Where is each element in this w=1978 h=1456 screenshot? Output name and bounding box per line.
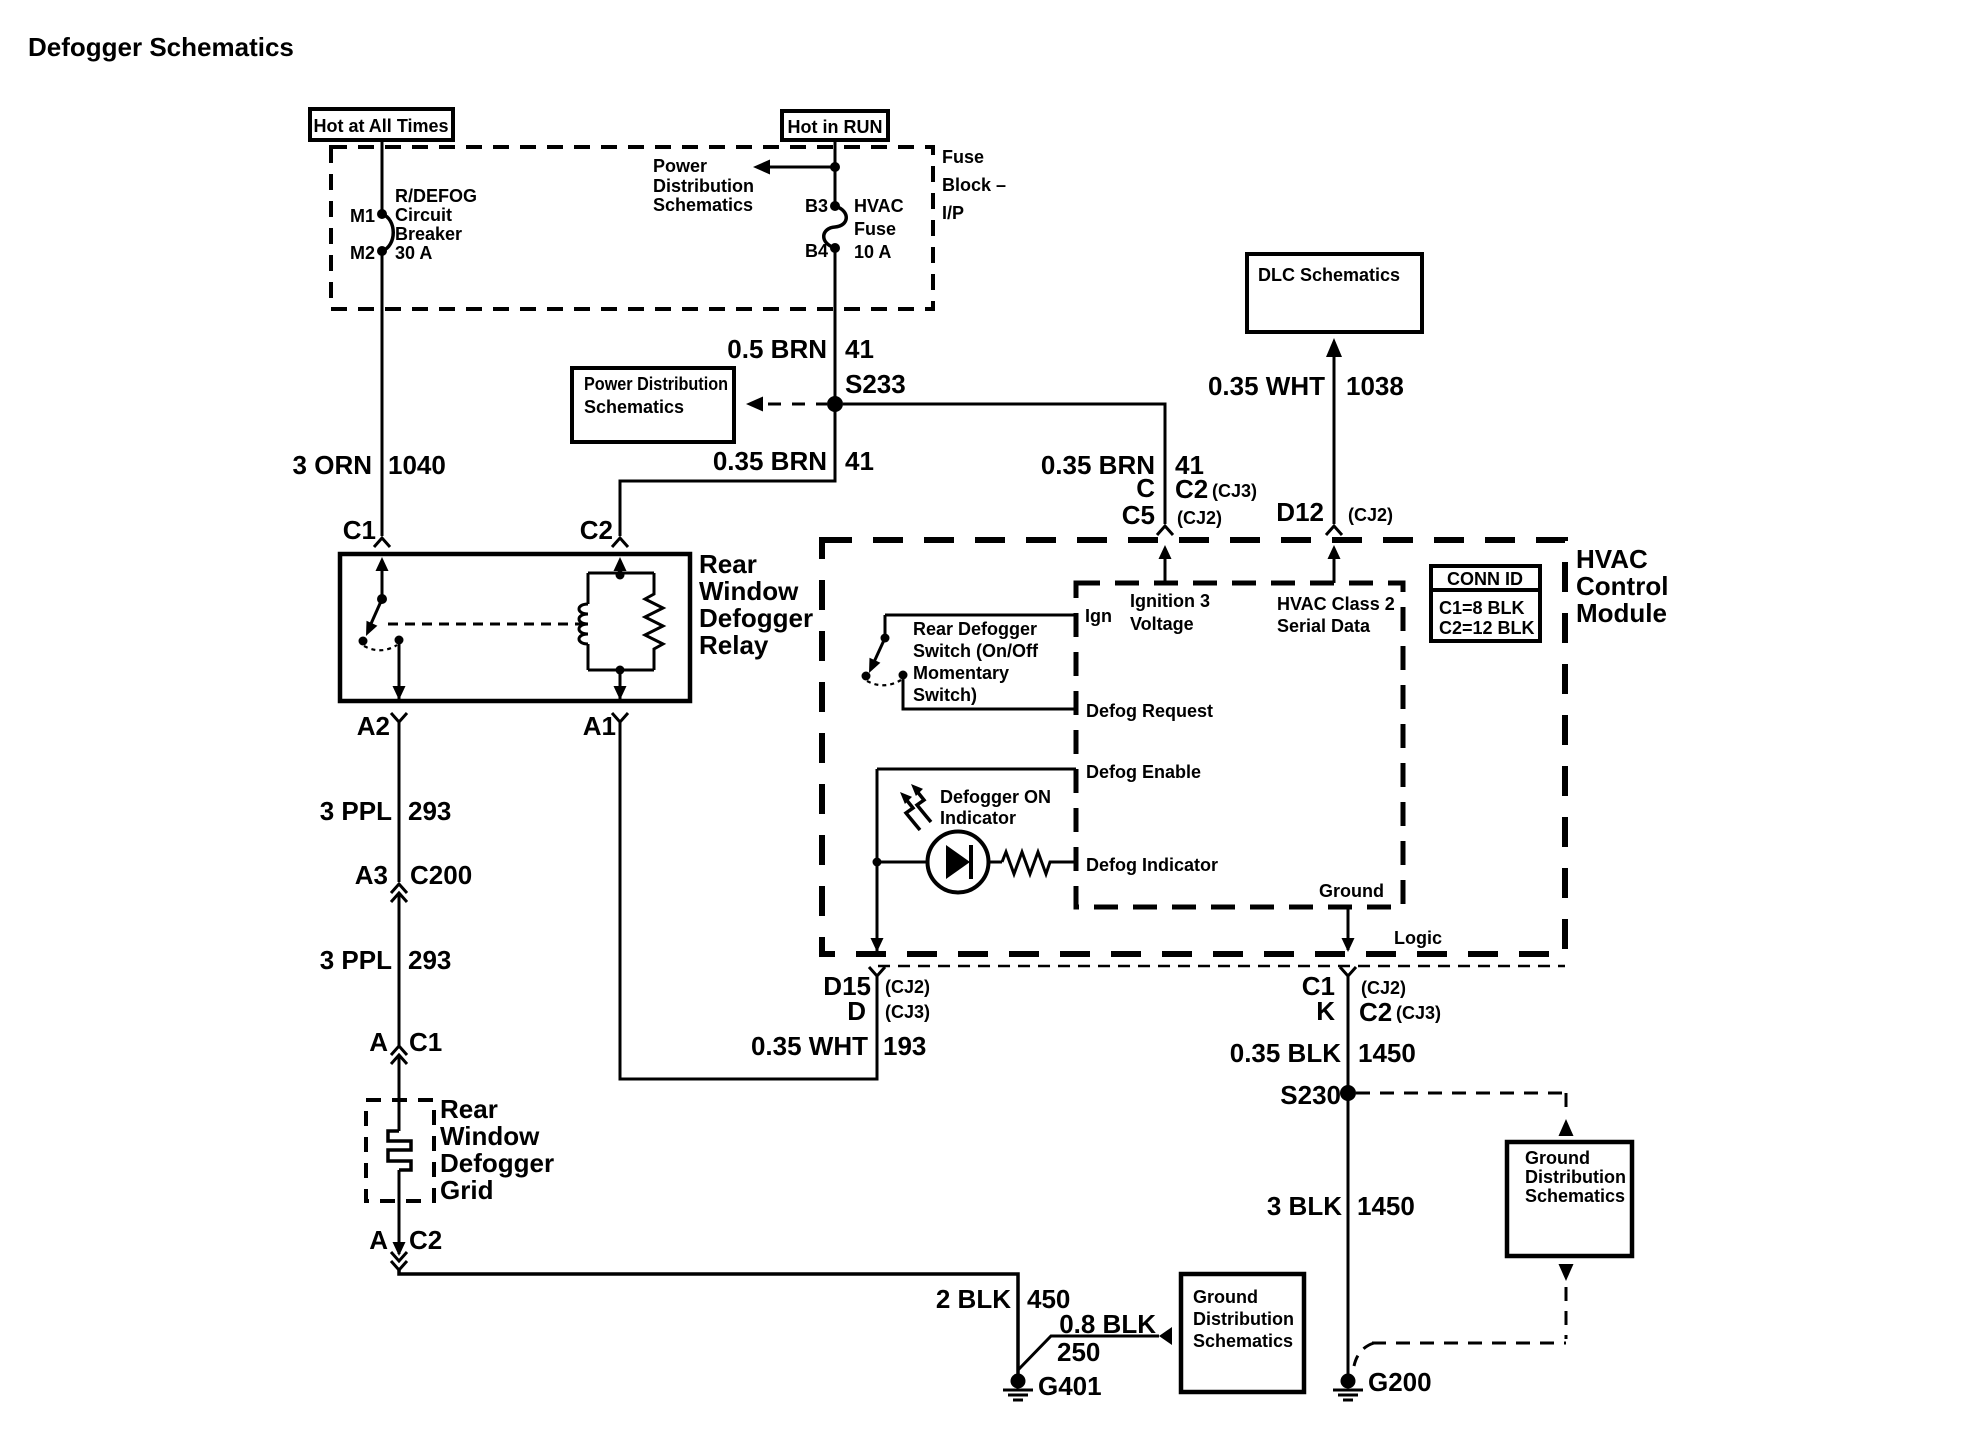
svg-text:Schematics: Schematics [653,195,753,215]
label: Fuse Block - I/P [942,147,1006,223]
svg-text:293: 293 [408,945,451,975]
svg-text:C5: C5 [1122,500,1155,530]
svg-text:C2: C2 [1175,474,1208,504]
wire: Defog Enable pin to indicator branch [877,768,1076,771]
svg-text:3 BLK: 3 BLK [1267,1191,1342,1221]
value label: 0.8 BLK [1059,1309,1156,1339]
svg-text:10 A: 10 A [854,242,891,262]
svg-text:Schematics: Schematics [1193,1331,1293,1351]
svg-text:Defogger: Defogger [440,1148,554,1178]
resistor in defog indicator line [1002,852,1076,874]
label: Defog Enable [1086,762,1201,782]
svg-text:Defogger ON: Defogger ON [940,787,1051,807]
svg-text:0.35 WHT: 0.35 WHT [1208,371,1325,401]
wire: relay coil to A1 (arrow down) [614,670,627,700]
relay switch contacts and dashed travel arc [359,636,404,651]
circuit breaker R/DEFOG 30 A (pins M1, M2) [377,209,393,256]
dashed box: rear window defogger grid [366,1100,434,1201]
svg-text:3 PPL: 3 PPL [320,945,392,975]
svg-text:1040: 1040 [388,450,446,480]
label: G200 [1368,1367,1432,1397]
svg-text:B3: B3 [805,196,828,216]
relay coil top rail with node dot [588,571,654,580]
pin label A3 / C200 [355,860,472,890]
svg-text:A2: A2 [357,711,390,741]
reference box: Ground Distribution Schematics (right) [1507,1142,1632,1256]
svg-text:A: A [369,1225,388,1255]
connector chevron at relay C1 [374,538,390,547]
svg-text:C2: C2 [409,1225,442,1255]
module logic inner dashed box [1076,583,1403,907]
wire: 3 PPL 293 from C200 to connector C1 of grid [398,893,401,1046]
pin label C / C2 (CJ3) [1136,473,1257,504]
svg-text:293: 293 [408,796,451,826]
svg-text:C1: C1 [343,515,376,545]
wire: 0.35 BRN 41 from S233 down and left to relay C2 [620,404,835,536]
ground G200 [1333,1374,1363,1401]
label: Defogger ON Indicator [940,787,1051,828]
relay switch common from C1 (arrow up, pivot dot) [376,557,389,604]
svg-text:HVAC: HVAC [854,196,904,216]
svg-text:S230: S230 [1280,1080,1341,1110]
defogger grid element (meander) [388,1131,411,1170]
title: Defogger Schematics [28,32,294,62]
label: Rear Window Defogger Grid [440,1094,554,1205]
value label: 0.5 BRN 41 [727,334,874,364]
indicator LED lamp (circle + diode) [881,832,1002,893]
pin label A2 [357,711,390,741]
reference box: DLC Schematics [1247,254,1422,332]
svg-text:41: 41 [845,446,874,476]
wire into rear window defogger grid [398,1055,401,1131]
wire: Hot in RUN down to HVAC fuse B3 [834,140,837,204]
label: HVAC Class 2 Serial Data [1277,594,1395,636]
pin label M2 [350,243,375,263]
junction node on fuse feed wire [830,162,840,172]
svg-text:CONN ID: CONN ID [1447,569,1523,589]
svg-text:I/P: I/P [942,203,964,223]
svg-text:(CJ3): (CJ3) [1212,481,1257,501]
svg-text:0.35 BLK: 0.35 BLK [1230,1038,1341,1068]
rear defogger switch contacts and dashed travel arc [862,671,908,686]
wire: 3 BLK 1450 from S230 to G200 [1347,1093,1350,1374]
svg-text:0.8 BLK: 0.8 BLK [1059,1309,1156,1339]
power label box: Hot at All Times [310,109,453,140]
pin label C5 / (CJ2) [1122,500,1222,530]
svg-text:Distribution: Distribution [1525,1167,1626,1187]
relay suppression resistor (right branch of parallel pair) [645,573,663,670]
pin label K / C2 (CJ3) [1316,996,1441,1027]
label: G401 [1038,1371,1102,1401]
pin label D / (CJ3) [847,996,930,1026]
pin label A / C2 (grid bottom) [369,1225,442,1255]
value label: 3 PPL 293 (lower) [320,945,452,975]
svg-text:B4: B4 [805,241,828,261]
svg-text:Schematics: Schematics [1525,1186,1625,1206]
node dot on defog enable/indicator branch [873,769,882,953]
svg-text:(CJ2): (CJ2) [885,977,930,997]
relay switch blade with arrowhead [366,599,382,636]
node S233 [827,396,843,412]
svg-text:Momentary: Momentary [913,663,1009,683]
wire: logic Ground pin down to module pin C1 (arrow down) [1342,907,1355,952]
pin label B3 [805,196,828,216]
inline connector grid C2 (double chevron down) [391,1252,407,1270]
inline connector C200 (double chevron) [391,884,407,902]
svg-text:G401: G401 [1038,1371,1102,1401]
svg-text:HVAC: HVAC [1576,544,1648,574]
wire: 0.35 BRN 41 from S233 right and down to HVAC module C5 [843,404,1165,524]
fuse F: HVAC Fuse 10 A (pins B3, B4) [824,201,847,253]
pin label C1 (relay) [343,515,376,545]
wire: 3 ORN 1040 from circuit breaker M2 to relay C1 [381,251,384,536]
connector chevron at relay A1 [612,713,628,722]
svg-text:Ground: Ground [1525,1148,1590,1168]
label: Ign (logic box pin) [1085,606,1112,626]
connector chevron at module C1/K [1340,967,1356,976]
ground G401 [1003,1374,1033,1401]
svg-text:M2: M2 [350,243,375,263]
wire: grid element to connector C2 (arrow down) [393,1170,406,1256]
connector chevron at HVAC D12 [1326,526,1342,535]
wire: C5 pin into logic box Ignition 3 Voltage (arrow up) [1159,545,1172,583]
label: HVAC Control Module [1576,544,1668,628]
svg-text:Defog Enable: Defog Enable [1086,762,1201,782]
label: Defog Request [1086,701,1213,721]
value label: 0.35 WHT 193 [751,1031,926,1061]
svg-text:Module: Module [1576,598,1667,628]
relay coil bottom rail with node dot [588,666,654,675]
pin label D15 / (CJ2) [823,971,930,1001]
svg-text:C1=8 BLK: C1=8 BLK [1439,598,1525,618]
label: Logic [1394,928,1442,948]
svg-text:Defogger Schematics: Defogger Schematics [28,32,294,62]
wire: rear defogger switch to Ign pin [885,614,1076,617]
dashed link: relay switch to relay coil [388,623,586,626]
svg-text:Defogger: Defogger [699,603,813,633]
svg-text:Rear Defogger: Rear Defogger [913,619,1037,639]
wire: 2 BLK 450 from grid C2 to G401 riser [399,1270,1018,1374]
svg-text:Control: Control [1576,571,1668,601]
svg-text:Power Distribution: Power Distribution [584,374,728,394]
svg-text:1450: 1450 [1358,1038,1416,1068]
svg-text:K: K [1316,996,1335,1026]
svg-text:C200: C200 [410,860,472,890]
svg-text:Indicator: Indicator [940,808,1016,828]
node S230 [1340,1085,1356,1101]
svg-text:Power: Power [653,156,707,176]
svg-text:Logic: Logic [1394,928,1442,948]
svg-text:Fuse: Fuse [942,147,984,167]
svg-text:Grid: Grid [440,1175,493,1205]
value label: 3 ORN 1040 [293,450,446,480]
svg-text:C: C [1136,473,1155,503]
svg-text:Rear: Rear [699,549,757,579]
pin label M1 [350,206,375,226]
svg-text:Hot at All Times: Hot at All Times [313,116,448,136]
svg-text:Window: Window [699,576,799,606]
rear defogger switch blade with arrowhead [869,638,885,673]
svg-text:D: D [847,996,866,1026]
pin label C1 / (CJ2) [1302,971,1406,1001]
svg-text:Defog Indicator: Defog Indicator [1086,855,1218,875]
svg-text:S233: S233 [845,369,906,399]
pin label C2 (relay) [580,515,613,545]
label: Ground (logic box pin) [1319,881,1384,901]
wire: relay C2 into coil (arrow up) [614,557,627,573]
relay K: Rear Window Defogger Relay box [340,554,690,701]
svg-text:G200: G200 [1368,1367,1432,1397]
svg-text:A1: A1 [583,711,616,741]
svg-text:(CJ2): (CJ2) [1361,978,1406,998]
svg-text:Ground: Ground [1193,1287,1258,1307]
svg-text:M1: M1 [350,206,375,226]
svg-text:Switch (On/Off: Switch (On/Off [913,641,1039,661]
svg-text:Hot in RUN: Hot in RUN [788,117,883,137]
label: S233 [845,369,906,399]
svg-text:C2=12 BLK: C2=12 BLK [1439,618,1535,638]
value label: 2 BLK 450 [936,1284,1071,1314]
wire: D12 pin into logic box HVAC Class 2 Serial Data (arrow up) [1328,545,1341,583]
svg-text:Ground: Ground [1319,881,1384,901]
reference box: Power Distribution Schematics [572,368,734,442]
svg-text:Ignition 3: Ignition 3 [1130,591,1210,611]
svg-text:C2: C2 [1359,997,1392,1027]
value label: 3 PPL 293 (upper) [320,796,452,826]
indicator light rays icon [900,784,931,830]
wire: 3 PPL 293 from relay A2 to connector C200 [398,722,401,882]
connector chevron at relay A2 [391,713,407,722]
svg-text:3 ORN: 3 ORN [293,450,372,480]
wire: 0.35 BLK 1450 from module C1 to S230 [1347,976,1350,1093]
value label: 0.35 WHT 1038 [1208,371,1404,401]
wire: relay switch to A2 (arrow down) [393,640,406,700]
wire: 0.35 WHT 1038 from HVAC D12 up to DLC Schematics [1326,338,1342,524]
svg-text:A: A [369,1027,388,1057]
svg-text:Breaker: Breaker [395,224,462,244]
label: Power Distribution Schematics (top) [653,156,754,215]
svg-text:HVAC Class 2: HVAC Class 2 [1277,594,1395,614]
wire: switch to Defog Request pin [903,675,1076,709]
fuse block I/P dashed box [331,147,933,309]
svg-text:1450: 1450 [1357,1191,1415,1221]
rear defogger switch pivot [881,615,890,643]
svg-text:Voltage: Voltage [1130,614,1194,634]
svg-text:Window: Window [440,1121,540,1151]
value label: HVAC Fuse 10 A [854,196,904,262]
svg-text:1038: 1038 [1346,371,1404,401]
svg-text:R/DEFOG: R/DEFOG [395,186,477,206]
svg-text:Block –: Block – [942,175,1006,195]
pin label A1 [583,711,616,741]
wire: 0.35 WHT 193 from D15 down, left and up to relay A1 [620,722,877,1079]
svg-text:Relay: Relay [699,630,769,660]
svg-text:Fuse: Fuse [854,219,896,239]
svg-text:Defog Request: Defog Request [1086,701,1213,721]
label: S230 [1280,1080,1341,1110]
inline connector grid C1 (double chevron) [391,1046,407,1064]
svg-text:(CJ2): (CJ2) [1177,508,1222,528]
svg-text:30 A: 30 A [395,243,432,263]
wire: 0.5 BRN 41 from fuse B4 to S233 [834,248,837,404]
dashed wire: S233 to Power Distribution Schematics box [746,397,827,412]
svg-text:Ign: Ign [1085,606,1112,626]
svg-text:DLC Schematics: DLC Schematics [1258,265,1400,285]
svg-text:0.35 WHT: 0.35 WHT [751,1031,868,1061]
svg-text:(CJ3): (CJ3) [885,1002,930,1022]
svg-text:41: 41 [845,334,874,364]
svg-text:193: 193 [883,1031,926,1061]
relay coil (left branch of parallel pair) [579,573,588,670]
svg-text:0.35 BRN: 0.35 BRN [713,446,827,476]
wire: 0.8 BLK 250 branch to Ground Distribution Schematics [1018,1327,1172,1370]
pin label D12 / (CJ2) [1276,497,1393,527]
reference box: Ground Distribution Schematics (left) [1181,1274,1304,1392]
dashed wire: S230 right to Ground Distribution Schematics (right) [1356,1093,1574,1136]
dashed wire: Ground Distribution Schematics (right) down to G200 [1354,1264,1574,1366]
label: Ignition 3 Voltage [1130,591,1210,634]
value label: 0.35 BRN 41 (right) [1041,450,1204,480]
value label: R/DEFOG Circuit Breaker 30 A [395,186,477,263]
pin label B4 [805,241,828,261]
label: Defog Indicator [1086,855,1218,875]
svg-text:Circuit: Circuit [395,205,452,225]
svg-text:A3: A3 [355,860,388,890]
power label box: Hot in RUN [782,111,888,140]
wire: defog enable branch down to module pin D15 (arrow down) [871,938,884,952]
connector chevron at relay C2 [612,538,628,547]
svg-text:Switch): Switch) [913,685,977,705]
svg-text:0.5 BRN: 0.5 BRN [727,334,827,364]
svg-text:3 PPL: 3 PPL [320,796,392,826]
pin label A / C1 (grid connector) [369,1027,442,1057]
svg-text:(CJ3): (CJ3) [1396,1003,1441,1023]
svg-text:D12: D12 [1276,497,1324,527]
connector ID table: CONN ID C1=8 BLK C2=12 BLK [1431,566,1540,641]
svg-text:Schematics: Schematics [584,397,684,417]
svg-text:C1: C1 [409,1027,442,1057]
svg-text:250: 250 [1057,1337,1100,1367]
svg-text:C2: C2 [580,515,613,545]
value label: 0.35 BRN 41 (left) [713,446,874,476]
value label: 250 [1057,1337,1100,1367]
label: Rear Defogger Switch (On/Off Momentary Switch) [913,619,1039,705]
wire: arrow branch to Power Distribution Schematics (top) [753,160,835,175]
wire: Hot at All Times to circuit breaker M1 [381,140,384,212]
svg-text:Serial Data: Serial Data [1277,616,1371,636]
connector chevron at module D15 [869,967,885,976]
label: Rear Window Defogger Relay [699,549,813,660]
svg-text:Rear: Rear [440,1094,498,1124]
value label: 3 BLK 1450 [1267,1191,1415,1221]
svg-text:Distribution: Distribution [1193,1309,1294,1329]
HVAC control module outer dashed box [822,540,1565,954]
svg-text:(CJ2): (CJ2) [1348,505,1393,525]
svg-text:Distribution: Distribution [653,176,754,196]
value label: 0.35 BLK 1450 [1230,1038,1416,1068]
connector chevron at HVAC C5 [1157,526,1173,535]
svg-text:2 BLK: 2 BLK [936,1284,1011,1314]
inline connector CJ2 dashed line under module [878,965,1565,968]
